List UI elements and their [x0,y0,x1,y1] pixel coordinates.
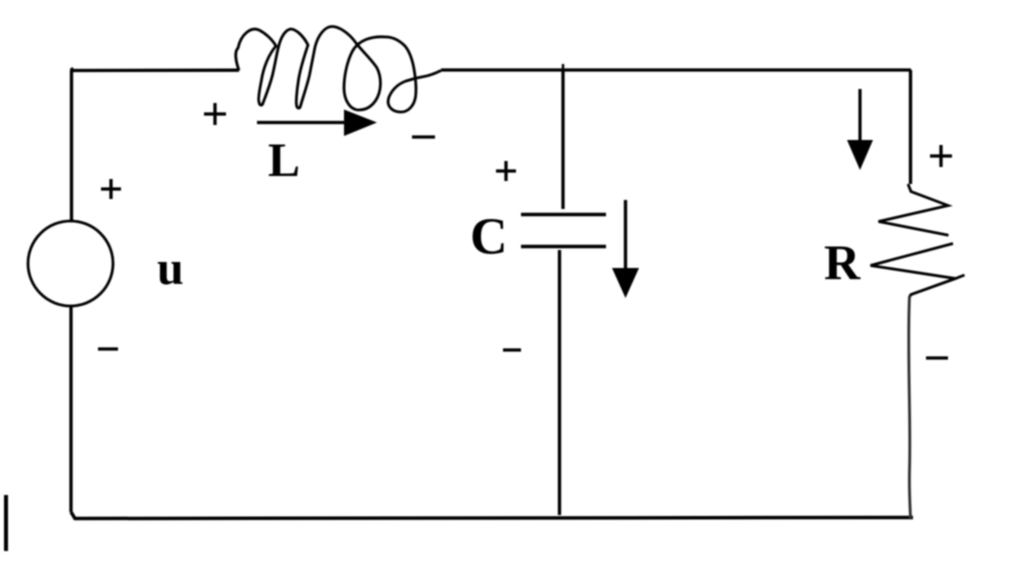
minus sign right of resistor bottom [926,356,948,359]
svg-text:C: C [470,209,508,266]
wire top-left horizontal (source to inductor) [71,68,239,71]
wire capacitor branch upper vertical [561,70,564,209]
wire left vertical upper (top corner down to source) [70,70,73,221]
capacitor C bottom plate [521,245,606,249]
wire bottom horizontal [71,512,913,519]
current arrow under inductor (head) [344,110,377,137]
current arrow at resistor (shaft) [858,89,861,144]
voltage source u (circle) [28,221,113,306]
svg-text:L: L [268,134,300,187]
svg-text:R: R [824,234,861,290]
minus sign at source bottom [98,347,118,350]
plus sign left of inductor [204,103,226,125]
node junction stub at capacitor branch [562,64,565,71]
plus sign right of resistor top [930,145,952,167]
current arrow beside capacitor (shaft) [624,200,627,272]
minus sign below capacitor [503,348,521,351]
wire left vertical lower (source to bottom corner) [69,306,72,512]
plus sign at source top [101,179,121,199]
capacitor C top plate [521,213,606,217]
current arrow under inductor (shaft) [257,121,352,124]
inductor L (hand-drawn coil) [236,27,441,113]
wire top-right horizontal (inductor to right corner) [441,68,911,71]
svg-text:u: u [157,242,184,295]
wire right vertical upper (top corner to resistor) [909,70,912,184]
wire capacitor branch lower vertical [558,250,561,515]
minus sign right of inductor [412,135,435,138]
wire right vertical lower (resistor to bottom corner) [909,296,911,518]
current arrow beside capacitor (head) [612,268,639,298]
resistor R (hand-drawn zigzag) [871,184,965,297]
current arrow at resistor (head) [847,140,873,170]
plus sign above capacitor [496,161,516,181]
stray cursor mark bottom-left [4,495,8,551]
